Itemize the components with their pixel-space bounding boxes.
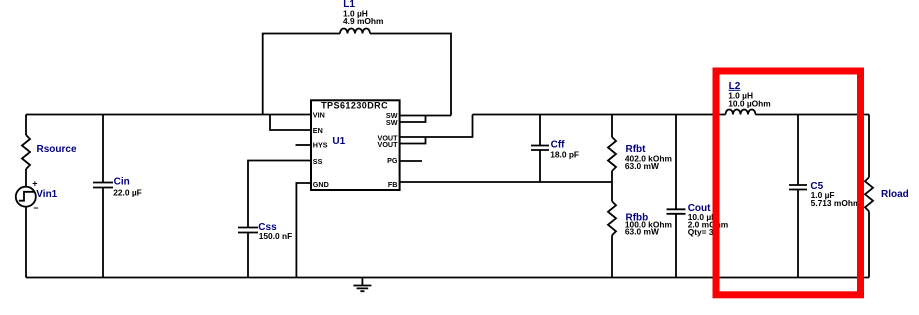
svg-text:SW: SW [386,118,398,127]
svg-text:+: + [32,179,37,189]
svg-text:VOUT: VOUT [378,140,399,149]
svg-text:GND: GND [313,180,329,189]
svg-text:FB: FB [388,180,398,189]
svg-text:Cin: Cin [114,177,130,188]
svg-text:Vin1: Vin1 [36,189,57,200]
svg-text:10.0 µOhm: 10.0 µOhm [728,98,771,108]
svg-text:TPS61230DRC: TPS61230DRC [321,101,388,111]
svg-text:4.9 mOhm: 4.9 mOhm [343,16,384,26]
svg-text:18.0 pF: 18.0 pF [550,150,579,160]
svg-text:Rload: Rload [881,189,909,200]
svg-text:150.0 nF: 150.0 nF [259,231,293,241]
svg-text:SS: SS [313,157,323,166]
svg-text:PG: PG [387,156,398,165]
svg-text:Rsource: Rsource [37,144,77,155]
svg-text:−: − [33,203,38,213]
svg-text:U1: U1 [332,136,345,147]
svg-text:EN: EN [313,126,323,135]
svg-text:5.713 mOhm: 5.713 mOhm [811,198,861,208]
svg-text:Qty= 3: Qty= 3 [688,227,714,237]
svg-text:63.0 mW: 63.0 mW [625,227,659,237]
svg-text:22.0 µF: 22.0 µF [113,188,142,198]
svg-text:63.0 mW: 63.0 mW [625,161,659,171]
svg-text:HYS: HYS [313,141,328,150]
svg-text:VIN: VIN [313,111,325,120]
